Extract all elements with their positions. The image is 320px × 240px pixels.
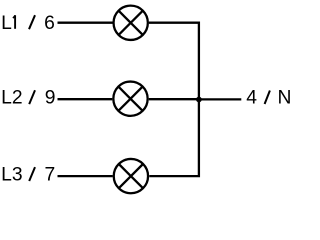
svg-text:9: 9	[45, 88, 56, 109]
junction dot	[196, 97, 202, 103]
wire L2 left	[58, 98, 113, 100]
lamp E2	[113, 82, 147, 116]
lamp E3	[114, 159, 148, 193]
wire L1 left	[58, 22, 113, 24]
node L3/7 label	[1, 165, 55, 186]
wire L3 left	[58, 175, 113, 177]
svg-text:N: N	[278, 88, 292, 109]
node L1/6 label	[1, 13, 55, 34]
node 4/N label	[246, 88, 291, 109]
wire L1 right + vertical bus + wire L3 right	[149, 23, 199, 176]
svg-text:6: 6	[44, 13, 55, 34]
svg-text:4: 4	[246, 88, 257, 109]
svg-text:L3: L3	[1, 165, 22, 186]
wire L2 right	[149, 98, 199, 100]
svg-text:L2: L2	[1, 88, 22, 109]
node L2/9 label	[1, 88, 55, 109]
svg-text:7: 7	[45, 165, 56, 186]
wire to 4/N	[199, 98, 241, 100]
svg-text:L: L	[1, 13, 12, 34]
lamp E1	[114, 6, 148, 40]
